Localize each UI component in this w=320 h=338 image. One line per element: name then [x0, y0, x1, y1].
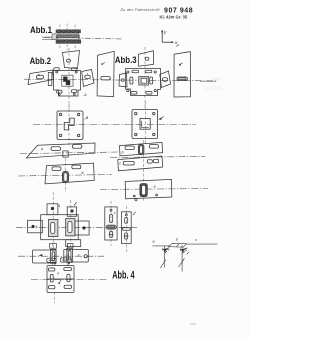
- coordinate axes x/y: [162, 31, 172, 42]
- middle row left top tab: [50, 244, 57, 249]
- Abb.1 vertical dashed construction lines: [60, 24, 75, 51]
- small circle below bar C: [135, 199, 137, 201]
- right bar C centerline: [100, 188, 208, 191]
- svg-text:1: 1: [87, 73, 89, 77]
- right bar C: [125, 179, 172, 198]
- Abb.1 left pointer lines: [42, 36, 56, 38]
- bottom assembly centerline: [31, 279, 107, 281]
- svg-text:b: b: [176, 238, 178, 242]
- Abb.4 top label 1 with slash: [74, 202, 77, 205]
- left square plate: [57, 111, 83, 140]
- middle row vertical dashed left: [51, 243, 53, 268]
- Abb.2 tall plate arrow mark: [102, 62, 106, 64]
- tall slotted plate 1 vertical dashed: [110, 201, 112, 246]
- schematic left vertical wire: [163, 246, 165, 268]
- Abb.3 tall right plate: [174, 52, 191, 97]
- middle row right top tab: [67, 243, 73, 247]
- schematic right slash: [179, 258, 185, 267]
- Abb.4 right side plate: [75, 221, 89, 235]
- schematic horizontal wire right: [186, 243, 218, 245]
- schematic left slash: [160, 260, 166, 269]
- svg-text:4: 4: [58, 204, 60, 208]
- svg-text:Abb. 4: Abb. 4: [112, 269, 134, 281]
- middle row centerline: [18, 255, 104, 257]
- svg-text:a: a: [36, 225, 38, 229]
- right bar A: [120, 142, 163, 156]
- Abb.1 centerline horizontal: [44, 37, 122, 39]
- middle row vertical dashed right: [67, 244, 69, 266]
- Abb.3 central hatched square: [139, 76, 149, 85]
- right square plate: [132, 110, 158, 139]
- Abb.3 central plate assembly: [126, 69, 161, 96]
- Abb.3 vertical dashed line: [144, 47, 146, 108]
- left square label 4: [85, 117, 88, 120]
- Abb.3 left small plate: [119, 73, 127, 87]
- faint bottom mark: [190, 323, 196, 325]
- left square plate vertical dashed: [68, 104, 70, 146]
- middle row left rect: [33, 249, 57, 263]
- tall slotted plate 1: [105, 207, 117, 240]
- right bars vertical dashed: [143, 140, 145, 202]
- faint smudge right of row2: [203, 86, 223, 91]
- down arrow right onto block: [68, 262, 70, 264]
- middle row left arrow mark: [39, 254, 43, 256]
- schematic right spring symbol: [182, 248, 187, 253]
- schematic contact inner slash: [177, 244, 180, 247]
- svg-text:Kl. 42m Gr. 35: Kl. 42m Gr. 35: [160, 15, 188, 20]
- Abb.2 top tilted plate: [63, 51, 80, 69]
- right square plate vertical dashed: [144, 102, 146, 144]
- Abb.3 right tilted plate: [160, 71, 171, 88]
- left bar row2: [45, 163, 94, 184]
- svg-text:Abb.1: Abb.1: [30, 25, 53, 36]
- svg-text:c: c: [78, 253, 80, 257]
- Abb.2/Abb.3 row centerline: [24, 79, 218, 81]
- svg-text:a: a: [153, 240, 155, 244]
- left square stepped slot: [64, 118, 74, 130]
- svg-text:c: c: [195, 238, 197, 242]
- svg-text:a: a: [41, 147, 43, 151]
- schematic right vertical wire: [181, 245, 183, 272]
- Abb.4 bottom tab: [66, 240, 81, 247]
- svg-text:a: a: [154, 185, 156, 189]
- left bar row2 centerline: [18, 175, 112, 177]
- squares row centerline: [33, 123, 196, 125]
- tall plate 2 label f: [133, 212, 136, 215]
- Abb.1 hatched laminated stack: [56, 30, 81, 44]
- Abb.2 tall right plate: [97, 51, 114, 96]
- svg-text:907 948: 907 948: [164, 7, 193, 14]
- tall slotted plate 2: [122, 212, 132, 244]
- Abb.4 top assembly centerline: [16, 226, 138, 228]
- svg-text:Abb.3: Abb.3: [115, 55, 137, 65]
- Abb.4 top tab right: [67, 207, 76, 216]
- bottom assembly vertical dashed: [54, 292, 56, 303]
- svg-text:4: 4: [86, 116, 88, 120]
- Abb.2/3 row extra dash: [200, 81, 216, 83]
- Abb.2 right tilted plate: [82, 70, 94, 87]
- right square label arrow: [158, 117, 162, 120]
- svg-text:c: c: [119, 162, 121, 166]
- svg-text:b: b: [122, 151, 124, 155]
- Abb.4 central block: [41, 215, 78, 240]
- bottom assembly diagonal arrow: [59, 279, 62, 283]
- svg-text:a: a: [38, 73, 40, 77]
- Abb.4 assembly vertical dashed right: [70, 200, 72, 246]
- Abb.2 left tilted plate: [28, 70, 54, 85]
- bottom assembly block: [47, 266, 74, 293]
- left bar row1 centerline: [20, 152, 118, 154]
- right bar B: [118, 156, 163, 171]
- svg-text:Zu der Patentschrift: Zu der Patentschrift: [120, 7, 161, 12]
- left bar row2 vertical dashed: [64, 158, 66, 192]
- Abb.2 central plate assembly: [48, 68, 80, 96]
- middle row right rect: [64, 248, 89, 262]
- right bars centerline: [110, 157, 205, 158]
- Abb.3 top tilted plate: [139, 51, 154, 66]
- svg-text:4: 4: [82, 171, 84, 175]
- Abb.2 central dark stepped slot: [63, 77, 70, 86]
- Abb.3 tall plate arrow mark: [179, 63, 182, 66]
- Abb.4 top tab left: [47, 204, 58, 215]
- bottom small slotted bar right: [60, 258, 71, 262]
- svg-text:-A: -A: [83, 93, 87, 97]
- svg-text:e: e: [57, 272, 59, 276]
- schematic horizontal wire left: [152, 245, 169, 247]
- left bar row1: [27, 143, 96, 158]
- svg-text:Abb.2: Abb.2: [30, 55, 51, 66]
- Abb.4 left side plate: [28, 220, 43, 233]
- Abb.2 central window box: [62, 75, 73, 86]
- schematic contact parallelogram: [169, 243, 187, 247]
- Abb.4 assembly vertical dashed left: [52, 192, 54, 250]
- bottom small slotted bar left: [47, 258, 56, 262]
- tall slotted plate 2 vertical dashed: [125, 206, 127, 252]
- Abb.1 left protrusion piece: [52, 34, 56, 40]
- svg-text:c: c: [114, 211, 116, 215]
- down arrow left onto block: [54, 263, 56, 265]
- Abb.2 vertical dashed line: [68, 48, 70, 111]
- schematic left spring symbol: [165, 248, 170, 253]
